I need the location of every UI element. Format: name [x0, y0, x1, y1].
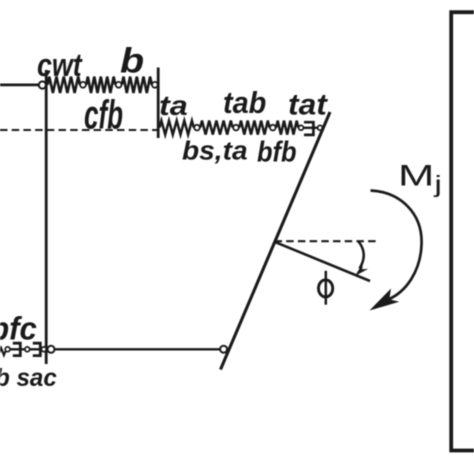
node: junction circle row1 a	[80, 82, 86, 88]
label tat	[288, 90, 327, 120]
label b (row1)	[120, 43, 144, 79]
node: junction circle row2 a	[194, 125, 200, 131]
label bfc	[0, 313, 37, 345]
node: circle right of wall bottom	[48, 346, 55, 353]
contact gap element bracket 1 (bottom-left)	[13, 343, 20, 355]
contact gap element bracket 2 (bottom-left)	[33, 343, 41, 355]
node: contact circle before gap element	[299, 125, 304, 130]
label ta	[159, 92, 188, 120]
label tab	[223, 89, 266, 119]
beam: rotated rigid member	[221, 112, 331, 370]
arrow: Mj moment arc	[371, 191, 422, 301]
label bs,ta	[182, 138, 248, 164]
wire: dashed reference line row 2	[0, 129, 157, 131]
node: contact circle on beam row2	[318, 125, 323, 130]
label cfb	[84, 94, 123, 135]
spring tail bottom-left (cut off)	[0, 348, 5, 355]
arrow: phi angle arc	[359, 242, 364, 269]
wire: rotated reference line (phi leg)	[275, 242, 371, 281]
spring cfb (row 1, middle)	[86, 77, 115, 93]
wire: left vertical member	[45, 70, 48, 364]
node: circle on beam bottom	[220, 346, 227, 353]
wire: top-left horizontal wire from left edge	[0, 84, 39, 87]
node: end circle row1	[152, 82, 158, 88]
label: phi symbol	[319, 280, 333, 297]
spring b (row 1, last)	[122, 77, 152, 93]
spring tat (row 2, 4th)	[276, 121, 298, 135]
node: small circle between brackets	[25, 347, 30, 352]
label bfb	[257, 138, 297, 167]
node: junction circle row2 c	[270, 125, 276, 131]
node: pin circle at left wall top	[39, 81, 46, 88]
label Mj	[398, 159, 442, 198]
wire: middle vertical post between spring rows	[157, 68, 160, 139]
spring cwt (row 1, first)	[48, 77, 81, 93]
wire: bottom-left connecting segments	[10, 348, 42, 350]
label b sac	[0, 366, 57, 391]
label cwt	[37, 50, 82, 83]
frame: right rectangle (partial)	[451, 12, 474, 450]
wire: bottom horizontal wire	[54, 348, 220, 350]
spring ta (row 2, 1st)	[160, 121, 194, 135]
node: small circle left of wall bottom	[41, 347, 46, 352]
arrowhead: Mj arc	[370, 289, 400, 311]
wire: through gap element row2	[303, 127, 317, 129]
node: junction circle row1 b	[116, 82, 122, 88]
node: small circle at far bottom-left	[5, 347, 10, 352]
wire: dashed horizontal reference at pivot	[275, 240, 379, 242]
spring row 2, 3rd	[239, 121, 269, 135]
spring row 2, 2nd	[200, 121, 232, 135]
node: junction circle row2 b	[233, 125, 239, 131]
contact gap element (bracket) row 2	[304, 122, 313, 135]
arrowhead: phi arc	[355, 263, 368, 276]
